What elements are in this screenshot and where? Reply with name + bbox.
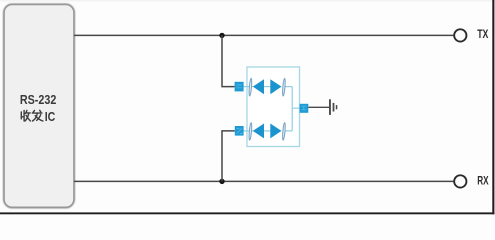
frame right edge: [492, 0, 494, 214]
RS-232 transceiver IC box: [4, 5, 74, 208]
svg-text:RS-232: RS-232: [20, 92, 56, 107]
pin 2: [235, 126, 244, 136]
pin 1: [235, 82, 244, 92]
wire teal leads bottom row: [243, 130, 253, 132]
wire teal leads top row: [243, 86, 253, 88]
svg-text:IC: IC: [45, 109, 56, 124]
diode D4 cathode lens: [282, 123, 286, 141]
frame bottom edge: [0, 212, 494, 214]
wire RX (bottom horizontal): [74, 180, 453, 182]
terminal TX: [454, 29, 466, 41]
svg-text:TX: TX: [477, 29, 488, 41]
diode D2 cathode lens: [282, 78, 286, 96]
diode D1 cathode lens: [249, 78, 253, 96]
glyph 收: [21, 110, 30, 121]
wire pin3 to ground: [308, 106, 329, 108]
node top junction: [219, 33, 224, 38]
label 收发IC (CJK drawn as paths): [21, 110, 43, 121]
diode D3 (bottom-left, cathode left): [253, 124, 264, 139]
ground: [329, 99, 337, 115]
pin 3: [300, 104, 309, 113]
wire from top junction to pin 1: [222, 35, 235, 86]
wire TX (top horizontal): [74, 34, 453, 36]
diode D4 (bottom-right, cathode right): [270, 124, 281, 139]
node bottom junction: [219, 179, 224, 184]
terminal RX: [454, 175, 466, 187]
TVS array U1 box: [247, 67, 300, 147]
svg-text:RX: RX: [477, 175, 489, 187]
glyph 发: [32, 110, 43, 121]
diode D2 (top-right, cathode right): [270, 79, 281, 94]
diode D3 cathode lens: [249, 123, 253, 141]
wire from bottom junction to pin 2: [222, 131, 235, 182]
wire teal vertical bus to pin 3: [292, 87, 300, 131]
diode D1 (top-left, cathode left): [253, 79, 264, 94]
